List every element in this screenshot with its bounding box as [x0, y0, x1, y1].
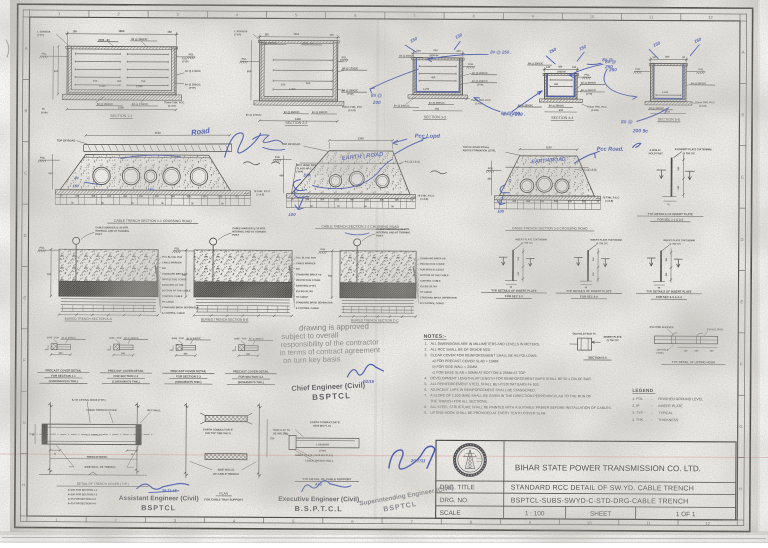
blue annotations section 5-5	[652, 40, 661, 48]
section 5-5 insert plate mini detail	[570, 333, 622, 361]
X dims	[50, 449, 60, 451]
scan noise overlay	[0, 0, 1, 1]
ruler row ticks and letters	[23, 16, 30, 18]
executive engineer blue signature	[302, 481, 351, 492]
buried trench section A-A	[37, 226, 199, 322]
ruler column ticks and numbers	[29, 10, 31, 17]
title block	[436, 440, 736, 520]
crossing road section 2-2	[273, 136, 447, 230]
plan for cable tray support	[184, 403, 275, 502]
ground symbol FGL	[274, 158, 282, 160]
precast cover detail 1-1	[37, 336, 89, 383]
paper curl top-left	[6, 40, 9, 57]
insert plate detail for sec 2-3	[481, 238, 547, 298]
buried trench section B-B	[172, 227, 333, 323]
assistant engineer blue signature	[137, 483, 189, 489]
ground symbol FGL	[39, 159, 47, 161]
ground symbol FGL	[173, 250, 181, 252]
detail of trench cover (typ)	[29, 398, 162, 506]
crossing road section 1-1	[38, 130, 280, 224]
typ detail of cable support	[273, 420, 359, 482]
insert plate detail for sec 4-4	[556, 238, 622, 298]
company logo	[454, 444, 485, 475]
low-frequency scan blotches	[0, 0, 1, 1]
fold crease vertical	[375, 20, 378, 520]
section 4-4 trench detail	[539, 67, 582, 121]
precast cover detail 2-2	[100, 337, 152, 384]
section 2-2 trench detail	[254, 34, 345, 125]
blue handwriting crossing 3-3	[531, 157, 566, 166]
buried trench section C-C	[318, 228, 457, 324]
section 5-5 trench detail	[645, 57, 692, 122]
ground symbol FGL	[487, 170, 495, 172]
ground symbol FGL	[319, 251, 327, 253]
blue annotations section 4-4	[548, 47, 557, 55]
ground symbol FGL	[340, 59, 348, 61]
ground symbol FGL	[40, 55, 48, 57]
blue road scribbles over crossing 1-1	[191, 126, 211, 137]
blue annotations section 3-3	[409, 36, 418, 44]
ground symbol FGL	[38, 249, 46, 251]
ground symbol FGL	[240, 60, 248, 62]
typ detail of lifting hook	[649, 326, 725, 365]
vertical dim section 1-1	[57, 46, 59, 94]
section 1-1 trench detail	[62, 31, 181, 118]
chief engineer blue signature	[347, 364, 383, 377]
superintending engineer stamp (rotated, partially cut)	[359, 485, 456, 518]
insert plate detail for sec 5-5 & 4-4	[636, 239, 702, 299]
bottom paper edge shadow	[0, 531, 768, 535]
approval stamp (gray)	[279, 321, 380, 365]
red scanner line	[0, 454, 768, 458]
notes block	[423, 334, 612, 416]
ground symbol FGL	[697, 71, 705, 73]
typ details of insert plate for sec 1-1 & 2-2	[637, 148, 711, 222]
ground symbol FGL	[583, 76, 591, 78]
ground symbol FGL	[187, 56, 195, 58]
precast cover detail 3-3	[162, 337, 214, 384]
precast cover detail 4-4	[225, 337, 277, 384]
legend block	[632, 388, 703, 422]
FGL marks section 1-1	[40, 52, 49, 59]
superintending engineer blue signature	[389, 446, 435, 469]
blue pen tail near insert plate	[633, 143, 641, 147]
crossing road section 3-3	[462, 145, 620, 231]
ground symbol FGL	[634, 70, 642, 72]
section 3-3 trench detail	[408, 51, 468, 120]
edge shading	[0, 0, 1, 1]
chief engineer stamp	[291, 380, 366, 402]
blue earth/road handwriting crossing 2-2	[341, 152, 384, 162]
ground symbol FGL	[467, 65, 475, 67]
